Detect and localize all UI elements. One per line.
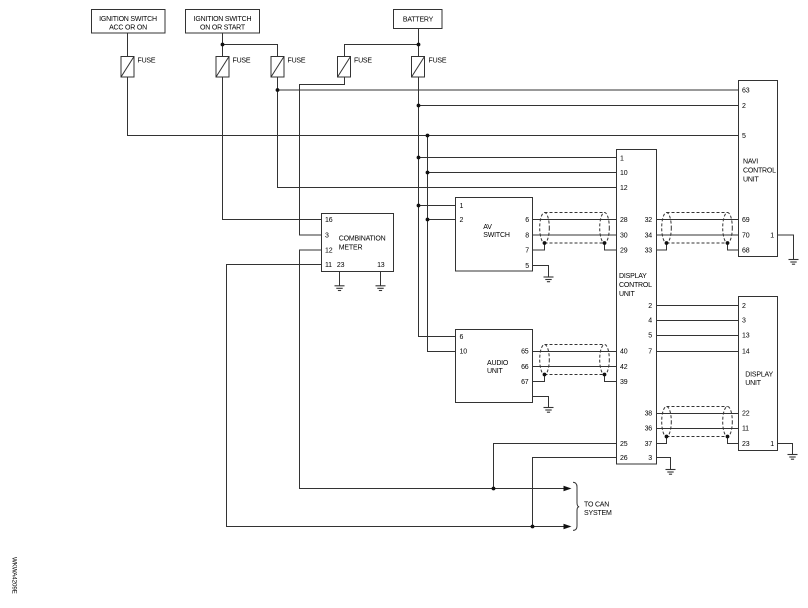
svg-text:AV: AV <box>483 224 492 231</box>
svg-text:METER: METER <box>339 244 363 251</box>
svg-text:10: 10 <box>460 349 468 356</box>
svg-text:IGNITION SWITCH: IGNITION SWITCH <box>194 16 252 23</box>
svg-text:7: 7 <box>648 349 652 356</box>
svg-text:25: 25 <box>620 441 628 448</box>
svg-text:42: 42 <box>620 364 628 371</box>
svg-text:CONTROL: CONTROL <box>743 168 776 175</box>
svg-text:1: 1 <box>770 441 774 448</box>
svg-text:11: 11 <box>742 426 749 433</box>
svg-text:SWITCH: SWITCH <box>483 232 510 239</box>
svg-text:26: 26 <box>620 455 628 462</box>
svg-text:FUSE: FUSE <box>288 58 306 65</box>
svg-text:2: 2 <box>742 303 746 310</box>
svg-text:BATTERY: BATTERY <box>403 17 434 24</box>
svg-text:6: 6 <box>525 217 529 224</box>
svg-text:FUSE: FUSE <box>429 58 447 65</box>
svg-text:16: 16 <box>325 217 333 224</box>
svg-text:FUSE: FUSE <box>233 58 251 65</box>
svg-text:10: 10 <box>620 170 628 177</box>
svg-text:40: 40 <box>620 349 628 356</box>
svg-text:65: 65 <box>521 349 529 356</box>
svg-text:UNIT: UNIT <box>743 177 759 184</box>
svg-text:23: 23 <box>337 262 345 269</box>
svg-text:12: 12 <box>325 248 333 255</box>
svg-text:32: 32 <box>645 217 653 224</box>
svg-text:CONTROL: CONTROL <box>619 282 652 289</box>
svg-text:ACC OR ON: ACC OR ON <box>109 25 147 32</box>
svg-text:68: 68 <box>742 248 750 255</box>
svg-text:3: 3 <box>742 318 746 325</box>
svg-text:TO CAN: TO CAN <box>584 502 609 509</box>
svg-text:2: 2 <box>648 303 652 310</box>
svg-text:FUSE: FUSE <box>354 58 372 65</box>
svg-text:37: 37 <box>645 441 653 448</box>
svg-text:WKWA4209E: WKWA4209E <box>11 557 18 594</box>
svg-text:AUDIO: AUDIO <box>487 360 509 367</box>
svg-text:DISPLAY: DISPLAY <box>745 371 773 378</box>
svg-text:6: 6 <box>460 334 464 341</box>
svg-text:FUSE: FUSE <box>138 58 156 65</box>
svg-text:3: 3 <box>325 233 329 240</box>
svg-text:69: 69 <box>742 217 750 224</box>
svg-text:SYSTEM: SYSTEM <box>584 510 612 517</box>
svg-text:ON OR START: ON OR START <box>200 25 246 32</box>
svg-text:1: 1 <box>620 156 624 163</box>
svg-text:66: 66 <box>521 364 529 371</box>
svg-text:7: 7 <box>525 248 529 255</box>
svg-text:5: 5 <box>742 133 746 140</box>
svg-text:39: 39 <box>620 379 628 386</box>
svg-text:4: 4 <box>648 318 652 325</box>
svg-text:11: 11 <box>325 262 332 269</box>
svg-text:UNIT: UNIT <box>487 368 503 375</box>
svg-text:63: 63 <box>742 88 750 95</box>
svg-text:UNIT: UNIT <box>745 380 761 387</box>
svg-text:23: 23 <box>742 441 750 448</box>
svg-text:DISPLAY: DISPLAY <box>619 273 647 280</box>
svg-text:5: 5 <box>648 333 652 340</box>
svg-text:IGNITION SWITCH: IGNITION SWITCH <box>99 16 157 23</box>
svg-text:30: 30 <box>620 233 628 240</box>
svg-text:70: 70 <box>742 233 750 240</box>
svg-text:22: 22 <box>742 411 750 418</box>
svg-text:2: 2 <box>742 103 746 110</box>
svg-text:NAVI: NAVI <box>743 159 758 166</box>
svg-text:34: 34 <box>645 233 653 240</box>
svg-text:38: 38 <box>645 411 653 418</box>
svg-text:36: 36 <box>645 426 653 433</box>
svg-text:28: 28 <box>620 217 628 224</box>
svg-text:29: 29 <box>620 248 628 255</box>
svg-text:UNIT: UNIT <box>619 291 635 298</box>
svg-text:1: 1 <box>770 233 774 240</box>
svg-text:3: 3 <box>648 455 652 462</box>
svg-text:COMBINATION: COMBINATION <box>339 235 386 242</box>
svg-text:14: 14 <box>742 349 750 356</box>
svg-text:67: 67 <box>521 379 529 386</box>
svg-text:12: 12 <box>620 185 628 192</box>
svg-text:2: 2 <box>460 217 464 224</box>
svg-text:13: 13 <box>377 262 385 269</box>
svg-text:5: 5 <box>525 263 529 270</box>
svg-text:1: 1 <box>460 203 464 210</box>
svg-text:8: 8 <box>525 233 529 240</box>
svg-text:13: 13 <box>742 333 750 340</box>
svg-text:33: 33 <box>645 248 653 255</box>
